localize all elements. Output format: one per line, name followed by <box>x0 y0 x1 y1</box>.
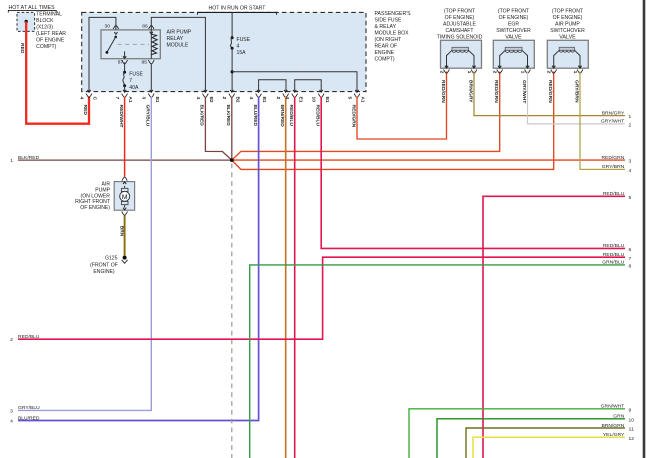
svg-text:HOT IN RUN OR START: HOT IN RUN OR START <box>209 6 266 12</box>
terminal block X12/3 (dashed box) <box>17 12 35 31</box>
svg-text:(TOP FRONT: (TOP FRONT <box>552 8 583 14</box>
svg-text:B2: B2 <box>234 97 240 103</box>
wire BRN/RED: pin 2 down off page <box>285 97 287 458</box>
svg-text:BRN/GRN: BRN/GRN <box>601 423 624 429</box>
svg-text:6: 6 <box>629 247 632 253</box>
svg-text:FUSE: FUSE <box>129 71 143 77</box>
svg-text:BRN/GRY: BRN/GRY <box>468 80 474 103</box>
svg-text:4: 4 <box>248 97 254 100</box>
page right border frame <box>643 0 646 458</box>
wire GRY/WHT: EGR valve pin 1 to right edge 2 <box>528 72 626 124</box>
svg-text:GRY/BLU: GRY/BLU <box>145 105 151 127</box>
svg-text:MODULE BOX: MODULE BOX <box>375 31 410 37</box>
svg-text:RED/BLU: RED/BLU <box>603 252 625 258</box>
svg-text:5: 5 <box>346 97 352 100</box>
svg-text:GRY/BLU: GRY/BLU <box>18 405 40 411</box>
passenger side fuse & relay module box (dashed) <box>82 12 366 91</box>
wire RED/BLU: right edge 7 to left edge 2 <box>18 257 625 339</box>
svg-text:1: 1 <box>519 71 525 74</box>
svg-text:BLK/RED: BLK/RED <box>225 105 231 127</box>
svg-text:RED/GRN: RED/GRN <box>601 155 624 161</box>
svg-text:30: 30 <box>105 24 111 30</box>
wire RED/GRN: junction fan to EGR valve pin 2 <box>232 72 500 161</box>
svg-text:RED/BLU: RED/BLU <box>288 105 294 127</box>
module pin 4/B2 <box>204 90 207 92</box>
relay pin 30 connector <box>113 25 118 29</box>
svg-text:GRY/WHT: GRY/WHT <box>521 80 527 103</box>
svg-text:FUSE: FUSE <box>237 37 251 43</box>
wire RED/GRN: pin A1-5 to camshaft solenoid pin 2 <box>357 72 447 140</box>
adjustable camshaft timing solenoid (valve) <box>441 40 482 68</box>
svg-text:SWITCHOVER: SWITCHOVER <box>550 28 585 34</box>
svg-text:RED/BLU: RED/BLU <box>603 191 625 197</box>
svg-text:BLK/RED: BLK/RED <box>199 105 205 127</box>
wire BRN/GRY: camshaft solenoid pin 1 to right edge 1 <box>474 72 625 116</box>
svg-text:85: 85 <box>142 60 148 66</box>
wire RED/WHT: pin A1-7 to air pump <box>124 97 126 177</box>
wire BLK/RED: pin B2-4 to junction <box>205 97 231 160</box>
wire GRN: right edge 10 down off page <box>437 419 625 458</box>
svg-text:A1: A1 <box>360 97 366 103</box>
relay pin 86 connector <box>149 25 154 29</box>
wire BLK/RED: left edge 1 to junction <box>18 159 232 161</box>
svg-text:(FRONT OF: (FRONT OF <box>90 262 118 268</box>
svg-text:BLK/RED: BLK/RED <box>18 155 40 161</box>
svg-text:10: 10 <box>629 417 635 423</box>
relay switch contact (30 to 87) <box>114 36 117 39</box>
wire RED: terminal block to module pin C <box>26 22 89 124</box>
relay coil (86 to 85) <box>150 30 152 59</box>
svg-text:3: 3 <box>629 159 632 165</box>
svg-text:TIMING SOLENOID: TIMING SOLENOID <box>437 34 483 40</box>
internal wire: pin 86 to pin B2-4 <box>151 17 205 91</box>
internal bridge: pins B1-4 and 2 <box>259 80 286 92</box>
svg-text:GRN/WHT: GRN/WHT <box>601 404 625 410</box>
svg-text:4: 4 <box>78 97 84 100</box>
svg-text:RED/BLU: RED/BLU <box>603 243 625 249</box>
svg-text:1: 1 <box>572 71 578 74</box>
svg-text:8: 8 <box>629 264 632 270</box>
svg-text:CAMSHAFT: CAMSHAFT <box>445 28 473 34</box>
svg-text:GRY/WHT: GRY/WHT <box>601 119 624 125</box>
svg-text:4: 4 <box>10 419 13 425</box>
svg-text:2: 2 <box>221 97 227 100</box>
svg-text:ADJUSTABLE: ADJUSTABLE <box>443 21 476 27</box>
svg-text:2: 2 <box>438 71 444 74</box>
svg-text:B2: B2 <box>208 97 214 103</box>
continuation dashed line below splice <box>231 164 233 458</box>
module pin 3/B1 <box>150 90 153 92</box>
wire GRY/BRN: air pump valve pin 1 to right edge 4 <box>580 72 625 170</box>
svg-text:(TOP FRONT: (TOP FRONT <box>444 8 475 14</box>
svg-text:2: 2 <box>492 71 498 74</box>
svg-text:BLU/RED: BLU/RED <box>18 415 40 421</box>
svg-text:(TOP FRONT: (TOP FRONT <box>498 8 529 14</box>
wire GRN/BLU: right edge 8 down off page <box>250 265 625 458</box>
svg-text:E1: E1 <box>297 97 303 103</box>
svg-text:COMPT): COMPT) <box>36 44 56 50</box>
svg-text:OF ENGINE): OF ENGINE) <box>499 15 529 21</box>
EGR switchover valve <box>493 40 534 68</box>
module pin 2/B2 <box>230 90 233 92</box>
svg-text:REAR OF: REAR OF <box>375 44 398 50</box>
junction node S (splice) <box>230 158 234 162</box>
wire RED/GRN: junction fan to air pump valve pin 2 <box>232 72 554 170</box>
svg-text:PASSENGER'S: PASSENGER'S <box>375 11 412 17</box>
svg-text:1: 1 <box>629 114 632 120</box>
svg-text:RED/GRN: RED/GRN <box>350 105 356 128</box>
wire RED/BLU: pin E1-4 down off page <box>294 97 296 458</box>
svg-text:5: 5 <box>629 195 632 201</box>
svg-text:(ON RIGHT: (ON RIGHT <box>375 37 402 43</box>
wire GRY/BLU: pin B1-3 to left edge 3 <box>18 97 151 411</box>
svg-text:RED/GRN: RED/GRN <box>440 80 446 103</box>
svg-text:AIR PUMP: AIR PUMP <box>555 21 580 27</box>
svg-text:BRN/GRY: BRN/GRY <box>602 110 625 116</box>
svg-text:GRY/BRN: GRY/BRN <box>574 80 580 103</box>
svg-text:ENGINE): ENGINE) <box>93 269 115 275</box>
fuse F4 15A <box>231 12 233 37</box>
internal wire: pin 30 to pin C <box>89 17 116 91</box>
svg-text:& RELAY: & RELAY <box>375 24 397 30</box>
svg-text:RED/BLU: RED/BLU <box>18 334 40 340</box>
svg-text:G125: G125 <box>105 256 118 262</box>
svg-text:GRN: GRN <box>613 414 624 420</box>
svg-text:11: 11 <box>629 427 635 433</box>
module pin 4/E1 <box>293 90 296 92</box>
svg-text:3: 3 <box>141 97 147 100</box>
svg-text:B1: B1 <box>261 97 267 103</box>
svg-text:4: 4 <box>237 43 240 49</box>
svg-text:7: 7 <box>629 256 632 262</box>
svg-text:OF ENGINE: OF ENGINE <box>36 37 65 43</box>
module pin 2 <box>284 90 287 92</box>
svg-text:GRN/BLU: GRN/BLU <box>602 260 624 266</box>
air pump relay module K-box <box>101 30 160 59</box>
module pin 7/A1 <box>123 90 126 92</box>
svg-text:BLOCK: BLOCK <box>36 18 54 24</box>
svg-text:A1: A1 <box>127 97 133 103</box>
wire RED/GRN: junction to right edge 3 <box>232 159 625 161</box>
svg-text:(X12/3): (X12/3) <box>36 24 53 30</box>
svg-text:1: 1 <box>10 158 13 164</box>
svg-text:OF ENGINE): OF ENGINE) <box>445 15 475 21</box>
wire BRN: air pump to ground G125 <box>124 216 126 256</box>
svg-text:RED/GRN: RED/GRN <box>493 80 499 103</box>
svg-text:12: 12 <box>629 436 635 442</box>
svg-text:BLU/RED: BLU/RED <box>252 105 258 127</box>
svg-text:AIR PUMP: AIR PUMP <box>167 30 192 36</box>
svg-text:RED/WHT: RED/WHT <box>118 105 124 128</box>
wire RED/BLU: pin B1-10 to right edge 6 <box>321 97 625 249</box>
svg-text:RED: RED <box>19 43 25 54</box>
svg-text:7: 7 <box>114 97 120 100</box>
svg-text:TERMINAL: TERMINAL <box>36 11 62 17</box>
svg-text:4: 4 <box>195 97 201 100</box>
internal wire: fuse F4 to pins B2-2 / A1-5 <box>231 48 233 91</box>
svg-text:3: 3 <box>10 408 13 414</box>
svg-text:MODULE: MODULE <box>167 43 189 49</box>
svg-text:(LEFT REAR: (LEFT REAR <box>36 31 66 37</box>
relay pin 87 stub <box>124 51 126 57</box>
svg-text:SWITCHOVER: SWITCHOVER <box>496 28 531 34</box>
svg-text:C: C <box>92 97 98 101</box>
svg-text:VALVE: VALVE <box>505 34 522 40</box>
wire BLU/RED: pin B1-4 to left edge 4 <box>18 97 259 421</box>
wire BRN/GRN: right edge 11 down off page <box>466 428 625 458</box>
wire RED/BLU: right edge 5 down off page <box>483 196 625 458</box>
svg-text:B1: B1 <box>154 97 160 103</box>
svg-text:SIDE FUSE: SIDE FUSE <box>375 18 403 24</box>
svg-text:2: 2 <box>546 71 552 74</box>
svg-text:RELAY: RELAY <box>167 36 184 42</box>
wire YEL/GRY: right edge 12 down off page <box>473 437 625 458</box>
svg-text:15A: 15A <box>237 50 247 56</box>
module pin 4/C <box>87 90 90 92</box>
wire BLK/RED: pin B2-2 to junction <box>231 97 233 160</box>
svg-text:COMPT): COMPT) <box>375 57 395 63</box>
ground G125 <box>123 256 127 260</box>
svg-text:RED/BLU: RED/BLU <box>315 105 321 127</box>
air pump motor M <box>114 182 134 211</box>
svg-text:10: 10 <box>311 97 317 103</box>
svg-text:40A: 40A <box>129 85 139 91</box>
svg-text:2: 2 <box>275 97 281 100</box>
svg-text:M: M <box>122 194 128 201</box>
svg-text:RED: RED <box>82 105 88 116</box>
node: terminal block junction <box>25 20 28 23</box>
svg-text:B1: B1 <box>324 97 330 103</box>
svg-text:YEL/GRY: YEL/GRY <box>603 432 625 438</box>
svg-text:ENGINE: ENGINE <box>375 50 395 56</box>
svg-text:VALVE: VALVE <box>559 34 576 40</box>
svg-text:GRY/BRN: GRY/BRN <box>602 164 625 170</box>
svg-text:4: 4 <box>629 168 632 174</box>
module pin 5/A1 <box>355 90 358 92</box>
svg-text:BRN: BRN <box>118 226 124 237</box>
svg-text:86: 86 <box>142 24 148 30</box>
svg-text:BRN/RED: BRN/RED <box>279 105 285 128</box>
fuse F7 40A <box>124 62 126 72</box>
internal bridge: pins E1-4 and B1-10 <box>295 80 322 92</box>
relay actuation dashed link <box>118 43 150 45</box>
module pin 4/B1 <box>257 90 260 92</box>
module pin 10/B1 <box>320 90 323 92</box>
air pump switchover valve <box>547 40 588 68</box>
svg-text:OF ENGINE): OF ENGINE) <box>80 205 110 211</box>
svg-text:9: 9 <box>629 407 632 413</box>
svg-text:OF ENGINE): OF ENGINE) <box>553 15 583 21</box>
wire GRN/WHT: right edge 9 down off page <box>409 409 625 458</box>
svg-text:7: 7 <box>129 78 132 84</box>
svg-text:EGR: EGR <box>508 21 519 27</box>
svg-text:RED/GRN: RED/GRN <box>547 80 553 103</box>
svg-text:1: 1 <box>466 71 472 74</box>
svg-text:2: 2 <box>629 123 632 129</box>
svg-text:2: 2 <box>10 337 13 343</box>
